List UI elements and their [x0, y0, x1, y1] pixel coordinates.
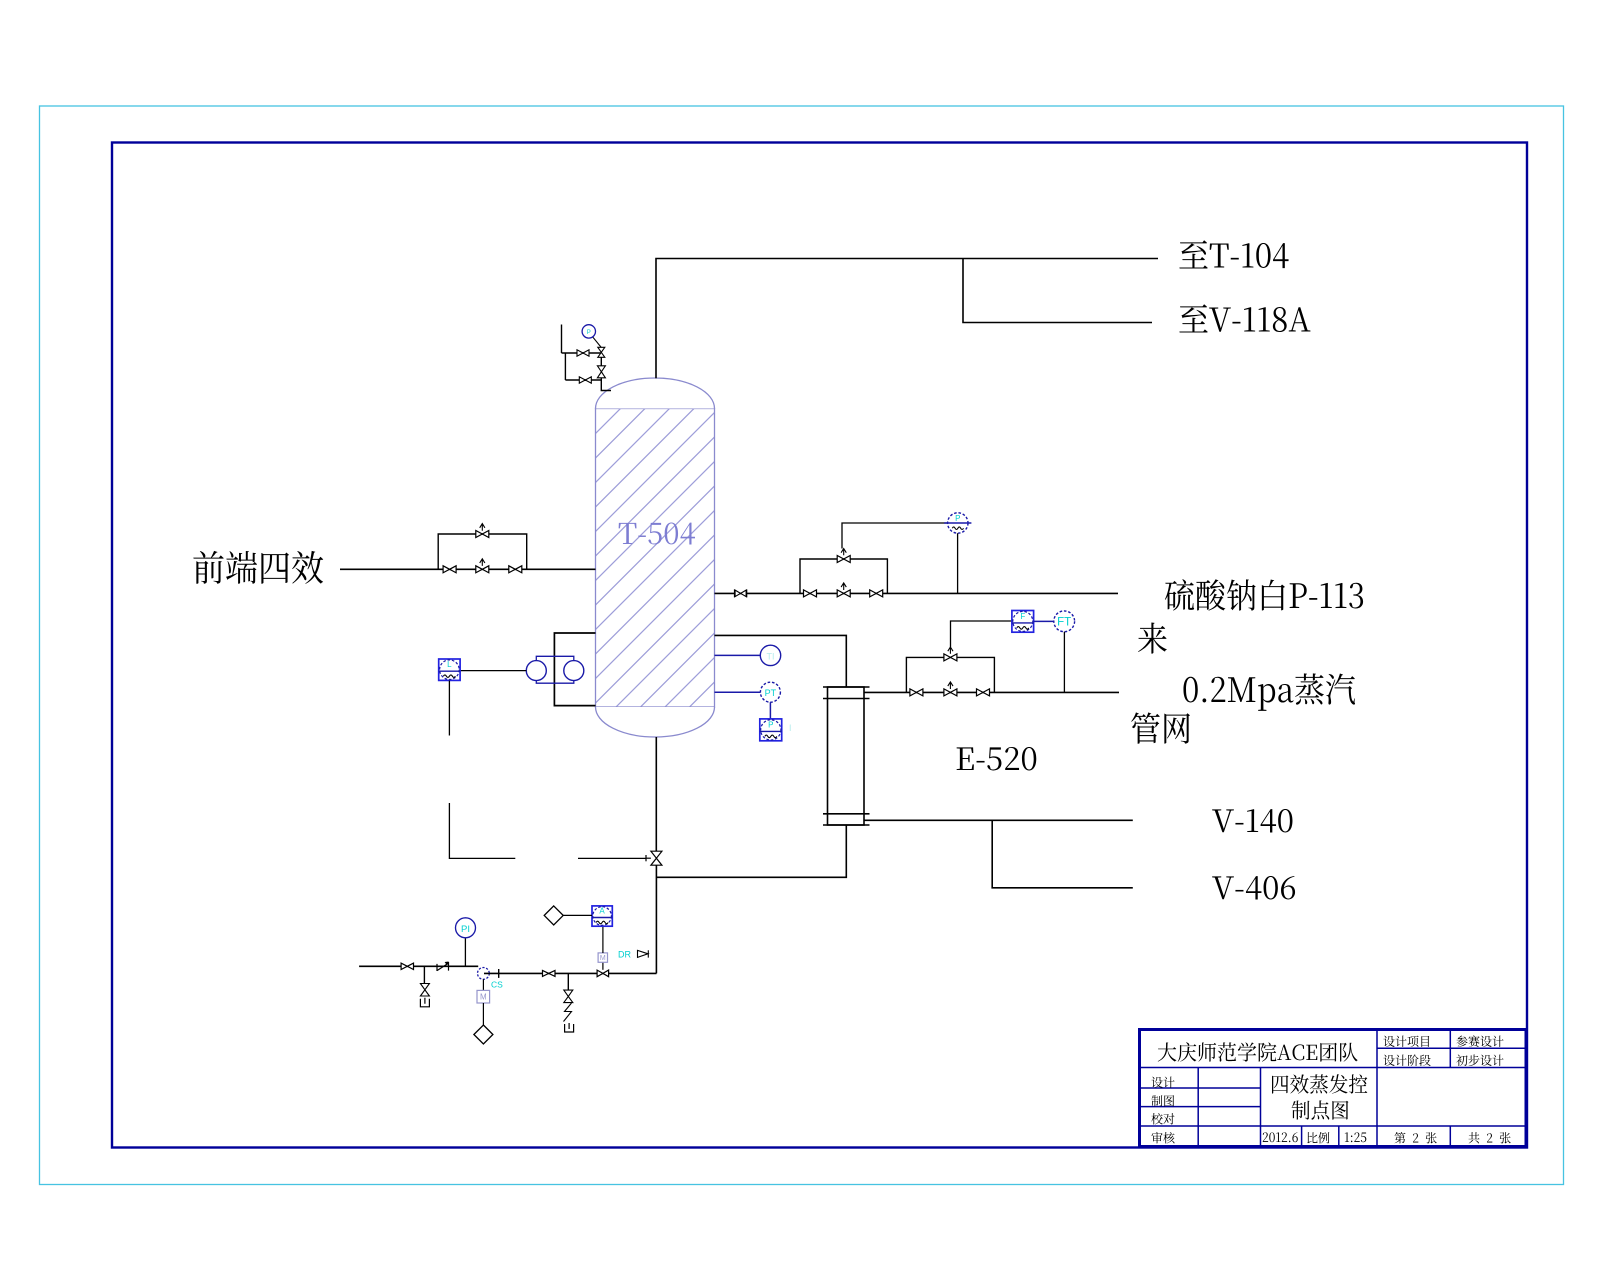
valve on vent upper branch — [577, 350, 589, 356]
signal FC to FT (navy) — [1034, 620, 1054, 622]
pipe: branch to V-118A — [963, 259, 1152, 323]
valve feed bypass — [480, 524, 485, 531]
bottoms control valve (vertical) — [645, 855, 647, 861]
control valve steam main — [948, 682, 953, 689]
signal: controller to bypass valve — [842, 523, 948, 549]
pipe: E-520 outlet to V-140 — [864, 819, 1133, 821]
drain valve DR on bottoms line — [638, 950, 649, 957]
vessel T-504 top dome — [596, 378, 715, 409]
AC square instrument — [592, 906, 612, 926]
control valve product bypass — [841, 549, 846, 556]
valve product main 2 — [870, 590, 883, 597]
PR square instrument — [760, 719, 782, 741]
label E-520 — [957, 747, 1037, 770]
pipe: overhead vapour line to T-104 — [656, 259, 1158, 379]
FC square instrument — [1012, 611, 1034, 633]
pipe: utility/flush line — [359, 965, 478, 967]
label T-504 on vessel — [619, 522, 695, 544]
drain branch with valve and funnel — [423, 966, 425, 983]
instrument circle (vent controller) — [582, 325, 595, 338]
control valve steam bypass — [948, 647, 953, 654]
feed bypass loop — [438, 534, 527, 569]
svg-text:A: A — [599, 907, 605, 916]
svg-text:F: F — [1020, 612, 1025, 621]
svg-text:TI: TI — [767, 651, 775, 661]
PT instrument circle — [760, 682, 780, 702]
valve feed main 1 — [443, 566, 456, 573]
label 硫酸钠白P-113 — [1165, 579, 1363, 610]
motor M below sampler — [482, 979, 484, 990]
title block outer border — [1140, 1030, 1527, 1147]
valve steam main 2 — [977, 689, 990, 696]
signal diamond to square — [563, 914, 592, 916]
pipe: vent upper branch — [562, 352, 602, 354]
valve steam main 1 — [910, 689, 923, 696]
level bridle standpipe — [554, 633, 595, 706]
pipe: vent lower branch — [565, 379, 601, 381]
valve utility 2 — [543, 970, 556, 976]
pipe: branch to V-406 — [992, 820, 1133, 888]
flanged valve at column nozzle — [734, 589, 736, 597]
signal line to level controller — [460, 670, 526, 672]
steam bypass loop — [906, 657, 994, 692]
pipe: bottoms to E-520 bottom — [656, 825, 846, 877]
PC controller circle — [948, 513, 968, 533]
svg-text:PI: PI — [461, 924, 470, 935]
signal PT to PR square (navy) — [769, 702, 771, 719]
valve utility 1 — [401, 963, 413, 969]
pipe: feed line from 前端四效 — [340, 568, 596, 570]
signal line segment to bottoms valve — [578, 857, 646, 859]
label 至V-118A — [1179, 304, 1310, 332]
vessel T-504 body with hatching — [596, 409, 715, 708]
inner navy drawing border — [112, 143, 1527, 1148]
label 0.2Mpa蒸汽 — [1183, 673, 1355, 710]
level gauge circle 1 — [526, 661, 546, 681]
valve product main 1 — [804, 590, 817, 597]
title block texts — [1158, 1042, 1358, 1061]
svg-text:I: I — [789, 723, 792, 733]
label 来 — [1138, 623, 1167, 654]
pipe: column bottoms outlet — [655, 737, 657, 851]
svg-text:P: P — [768, 720, 773, 729]
drain branch 2 with valve, spring and funnel — [567, 973, 569, 990]
svg-text:PT: PT — [765, 688, 777, 698]
check valve — [437, 962, 449, 971]
svg-text:CS: CS — [491, 980, 503, 990]
signal: bypass valve to FC square — [951, 621, 1012, 647]
pipe: 0.2MPa steam line — [864, 691, 1119, 693]
motor valve assembly — [597, 970, 609, 977]
signal line to PT (navy) — [715, 691, 761, 693]
pipe: vent riser — [601, 357, 611, 391]
control valve with actuator — [593, 337, 601, 347]
TI instrument circle — [760, 645, 780, 665]
label V-406 — [1212, 876, 1295, 900]
pipe: bottoms line down to pump suction — [655, 865, 657, 973]
PI instrument circle — [464, 938, 466, 966]
inline sampler circle — [478, 968, 490, 980]
pipe: column circulation to E-520 top — [715, 635, 847, 687]
svg-text:M: M — [480, 993, 487, 1002]
title block grid lines — [1376, 1030, 1378, 1147]
control valve feed main — [480, 559, 485, 566]
E-520 flange lines — [823, 686, 870, 688]
pipe: vent lower branch riser — [564, 353, 566, 380]
pipe: utility line after sampler — [484, 972, 657, 974]
signal: controller tap to product line — [957, 533, 959, 593]
svg-text:P: P — [587, 330, 591, 336]
svg-text:FT: FT — [1057, 617, 1071, 629]
product bypass loop — [800, 559, 887, 593]
valve on vent lower branch — [579, 377, 591, 383]
signal FT tap to steam line — [1063, 632, 1065, 693]
level controller square instrument — [439, 659, 460, 680]
signal line L-shape to bottom valve — [449, 803, 515, 858]
signal line to TI (navy) — [715, 654, 761, 656]
pipe: vent stub — [561, 325, 563, 354]
label 管网 — [1131, 712, 1190, 743]
valve on vent riser — [597, 366, 605, 378]
svg-text:L: L — [447, 660, 452, 669]
svg-text:DR: DR — [618, 950, 631, 960]
vessel T-504 bottom dome — [596, 707, 715, 737]
valve feed main 2 — [509, 566, 522, 573]
label 前端四效 — [193, 551, 323, 584]
flange tick — [498, 969, 500, 978]
level gauge connectors (navy) — [536, 656, 574, 661]
level gauge circle 2 — [564, 661, 584, 681]
pipe: product line to P-113 — [715, 592, 1119, 594]
signal drop from level controller — [448, 681, 450, 736]
label 至T-104 — [1179, 240, 1288, 268]
FT instrument circle — [1054, 611, 1075, 632]
svg-text:M: M — [600, 955, 606, 962]
interlock diamond — [474, 1025, 493, 1044]
label V-140 — [1212, 809, 1292, 833]
interlock diamond 2 — [544, 906, 563, 925]
svg-text:P: P — [955, 514, 960, 523]
control valve product main — [841, 583, 846, 590]
heat exchanger E-520 body — [828, 687, 865, 825]
